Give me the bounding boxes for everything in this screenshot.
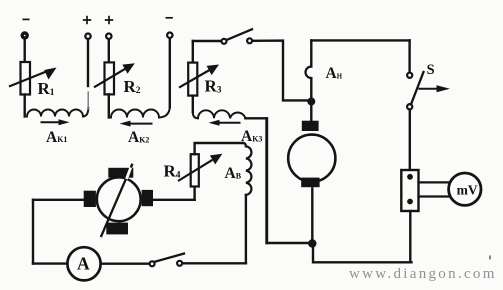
svg-text:S: S [427, 62, 435, 78]
svg-text:www.diangon.com: www.diangon.com [349, 266, 497, 282]
svg-text:mV: mV [457, 182, 478, 197]
svg-text:A: A [77, 253, 90, 273]
